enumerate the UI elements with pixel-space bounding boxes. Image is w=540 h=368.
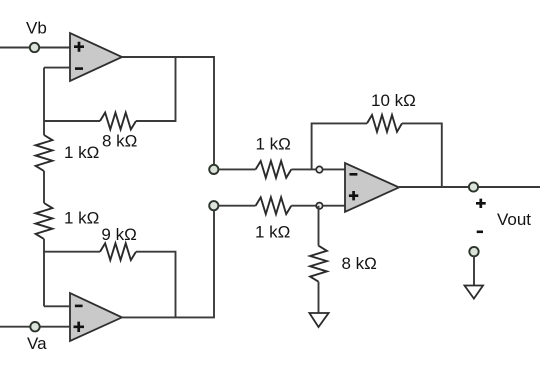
wire left rail upper — [43, 68, 45, 135]
svg-text:1 kΩ: 1 kΩ — [256, 134, 291, 153]
resistor 10 kOhm feedback U3 — [367, 115, 402, 132]
wire Va input — [0, 326, 70, 328]
wire 8k feedback left segment — [44, 120, 100, 122]
svg-text:8 kΩ: 8 kΩ — [342, 254, 377, 273]
wire left rail middle — [43, 171, 45, 203]
svg-text:1 kΩ: 1 kΩ — [64, 143, 99, 162]
wire U3 output Vout net — [399, 186, 540, 188]
wire to U3 inverting input — [291, 168, 345, 170]
label plus output polarity — [476, 199, 486, 208]
op-amp U2 — [70, 293, 122, 341]
svg-text:9 kΩ: 9 kΩ — [101, 225, 136, 244]
wire U2 output to node B — [122, 206, 214, 318]
wire left rail lower — [43, 239, 45, 306]
junction inverting input of U3 — [316, 166, 322, 172]
terminal Va — [30, 322, 39, 331]
wire 8k pulldown lower segment — [318, 282, 320, 313]
op-amp U1 — [70, 33, 122, 81]
wire node A to resistor — [214, 168, 256, 170]
svg-text:Vb: Vb — [26, 18, 47, 37]
wire U1 inverting input — [44, 67, 70, 69]
label minus output polarity — [477, 231, 483, 234]
wire Vb input — [0, 47, 70, 49]
wire to U3 non-inverting input — [291, 205, 345, 207]
svg-text:10 kΩ: 10 kΩ — [371, 91, 416, 110]
wire U2 inverting input — [44, 305, 70, 307]
resistor 1 kOhm top middle — [256, 161, 292, 178]
ground symbol output reference — [465, 286, 484, 299]
resistor 8 kOhm pulldown — [310, 246, 327, 282]
resistor 9 kOhm feedback U2 — [100, 243, 136, 260]
resistor 8 kOhm feedback U1 — [100, 113, 136, 130]
wire 8k feedback right segment — [136, 57, 176, 121]
wire 9k feedback left segment — [44, 251, 100, 253]
terminal Vb — [30, 43, 39, 52]
ground symbol below 8k pulldown — [309, 313, 328, 327]
resistor 1 kOhm bottom middle — [256, 197, 292, 214]
wire U1 output to node A — [122, 57, 214, 169]
node B circle — [209, 201, 218, 210]
node Vout circle — [469, 182, 478, 191]
resistor 1 kOhm lower-left — [36, 203, 53, 239]
op-amp U3 — [345, 163, 399, 212]
node A circle — [209, 165, 218, 174]
resistor 1 kOhm upper-left — [36, 135, 53, 171]
wire Vout negative to ground — [473, 256, 475, 285]
wire node B to resistor — [214, 205, 256, 207]
svg-text:Va: Va — [27, 334, 47, 353]
svg-text:8 kΩ: 8 kΩ — [102, 132, 137, 151]
wire 10k feedback right segment — [402, 123, 442, 187]
svg-text:Vout: Vout — [497, 210, 531, 229]
wire 8k pulldown upper segment — [318, 206, 320, 246]
svg-text:1 kΩ: 1 kΩ — [255, 222, 290, 241]
terminal Vout negative — [469, 247, 478, 256]
junction non-inverting input of U3 — [316, 203, 322, 209]
wire 10k feedback up from inverting node — [312, 123, 367, 169]
svg-text:1 kΩ: 1 kΩ — [64, 209, 99, 228]
wire 9k feedback right segment — [136, 252, 176, 318]
